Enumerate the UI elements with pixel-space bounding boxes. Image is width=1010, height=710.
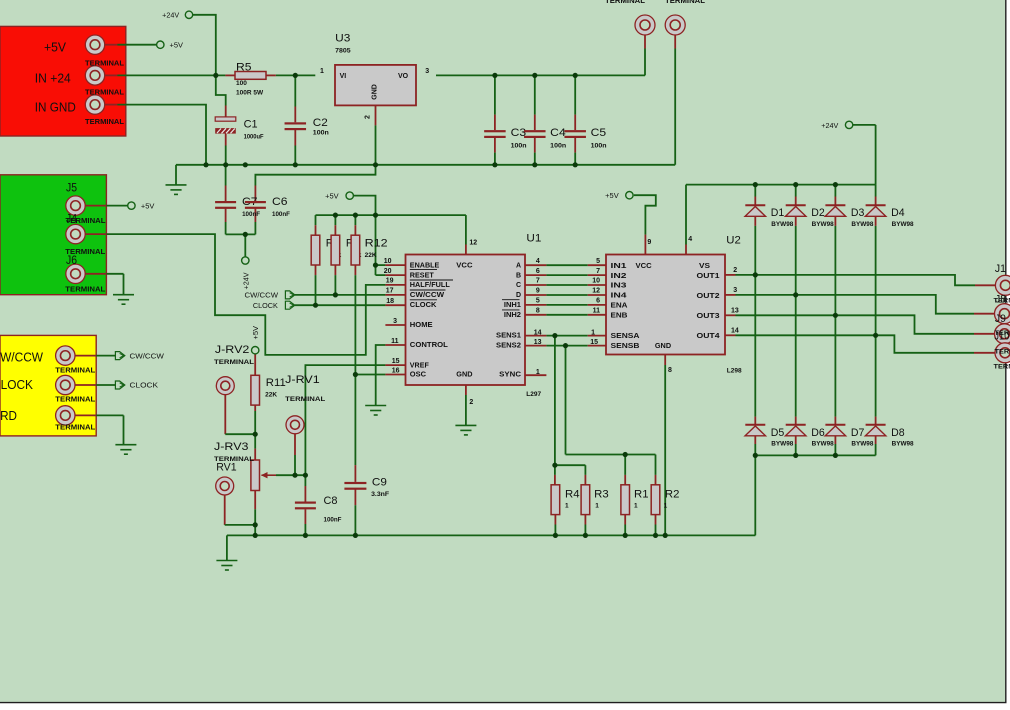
power flag +5V U2 — [626, 192, 633, 199]
terminal pad J-RV1 — [286, 416, 304, 434]
capacitor C9 — [344, 482, 366, 490]
resistor R1 — [621, 485, 630, 515]
svg-text:OUT1: OUT1 — [697, 273, 720, 280]
svg-text:22K: 22K — [365, 252, 377, 259]
svg-text:TERMINAL: TERMINAL — [55, 397, 96, 404]
resistor R12 — [351, 235, 360, 265]
junction at (554.9,335.6) — [552, 333, 557, 338]
junction at (575.2,75.4) — [573, 73, 578, 78]
svg-text:9: 9 — [536, 288, 540, 295]
svg-text:BYW98: BYW98 — [771, 222, 794, 228]
ground symbol bottom-left — [216, 561, 237, 571]
svg-text:J9: J9 — [995, 313, 1006, 325]
wire green block middle pad to HALF/FULL pin 19 — [85, 233, 107, 235]
junction at (355.4,535.4) — [353, 533, 358, 538]
wire U1 A to U2 IN1 — [525, 264, 546, 266]
wire C6 feed from ground rail — [255, 165, 375, 186]
power flag +5V red block — [157, 41, 164, 48]
svg-text:GND: GND — [372, 84, 379, 100]
svg-text:INH2: INH2 — [504, 312, 521, 319]
junction at (755.3,184.6) — [753, 182, 758, 187]
terminal pad IN GND — [85, 95, 104, 114]
svg-text:TERMINAL: TERMINAL — [995, 348, 1010, 355]
junction at (565.5,345.6) — [563, 343, 568, 348]
junction at (494.9,75.4) — [492, 73, 497, 78]
wire IN+24 pad to R5 — [105, 74, 118, 76]
svg-text:D7: D7 — [851, 427, 865, 439]
svg-text:U3: U3 — [335, 33, 350, 45]
svg-text:BYW98: BYW98 — [812, 222, 835, 228]
svg-text:C9: C9 — [372, 477, 387, 489]
wire +24V top rail — [686, 184, 876, 186]
svg-text:CW/CCW: CW/CCW — [130, 353, 165, 360]
svg-text:J4: J4 — [66, 212, 77, 226]
ground symbol below yellow block — [115, 445, 136, 455]
wire U1 GND pin 2 — [465, 385, 467, 395]
junction at (575.2,164.8) — [573, 162, 578, 167]
wire +5V flag to R11 top — [254, 354, 256, 375]
terminal pad top 1 — [635, 15, 655, 35]
junction at (625.2,535.4) — [623, 533, 628, 538]
wire +24V flag to node R5-left — [193, 15, 216, 76]
wire J-RV1 pad drop — [294, 434, 296, 456]
power flag +5V green block — [128, 202, 135, 209]
svg-text:OUT2: OUT2 — [697, 293, 720, 300]
svg-text:20: 20 — [384, 268, 392, 275]
junction at (255.2,524.9) — [253, 522, 258, 527]
input port arrow CW/CCW — [285, 291, 294, 299]
svg-text:10: 10 — [592, 278, 600, 285]
svg-text:+24V: +24V — [162, 13, 179, 20]
svg-text:OSC: OSC — [410, 372, 426, 379]
svg-text:16: 16 — [392, 367, 400, 374]
driver U2 L298 — [606, 255, 725, 355]
wire J-RV3 pad to RV1 bottom node — [224, 495, 226, 525]
svg-text:J1: J1 — [995, 263, 1006, 275]
junction at (835.4,184.6) — [833, 182, 838, 187]
svg-text:TERMINAL: TERMINAL — [85, 119, 125, 126]
svg-text:C4: C4 — [550, 127, 566, 139]
svg-text:INH1: INH1 — [504, 302, 521, 309]
wire U1 SYNC stub pin 1 — [525, 374, 546, 376]
svg-text:IN3: IN3 — [611, 283, 627, 290]
svg-text:TERMINAL: TERMINAL — [214, 359, 254, 366]
wire ground rail y=165 — [176, 164, 675, 166]
diode D7 BYW98 — [825, 425, 845, 436]
wire U1 C to U2 IN3 — [525, 284, 546, 286]
svg-text:SENS1: SENS1 — [496, 333, 521, 340]
junction at (665.2,535.4) — [663, 533, 668, 538]
wire U1 D to U2 IN4 — [525, 294, 546, 296]
svg-text:D2: D2 — [811, 207, 825, 219]
output port arrow CLOCK — [115, 381, 124, 389]
wire U1 INH1 to U2 ENA — [525, 304, 546, 306]
wire U1 SENS1 to U2 SENSA — [525, 335, 546, 337]
wire U2 OUT2 to terminal J1-2 — [725, 294, 736, 296]
wire U3 VO +5V line to terminal corner — [436, 74, 645, 76]
svg-text:C2: C2 — [313, 117, 328, 129]
power flag +24V below C7/C6 (rotated) — [242, 257, 249, 264]
ground symbol CONTROL — [365, 406, 386, 416]
wire anode rail down to ground rail — [754, 455, 756, 535]
svg-text:BYW98: BYW98 — [892, 222, 915, 228]
svg-text:100n: 100n — [313, 130, 329, 137]
svg-text:IN +24: IN +24 — [35, 71, 71, 85]
wire U2 GND pin 8 to ground rail — [664, 355, 666, 366]
svg-text:J-RV1: J-RV1 — [285, 374, 320, 386]
wire CW/CCW input net to pin 17 — [295, 294, 386, 296]
junction at (255.2,535.4) — [253, 533, 258, 538]
terminal pad J-RV2 — [216, 377, 234, 395]
svg-text:ENA: ENA — [611, 303, 628, 310]
svg-text:14: 14 — [534, 330, 542, 337]
junction at (655.5,535.4) — [653, 533, 658, 538]
junction at (534.8,75.4) — [532, 73, 537, 78]
svg-text:BYW98: BYW98 — [892, 442, 915, 448]
wire U2 OUT3 to terminal J1-3 — [725, 314, 736, 316]
svg-text:D3: D3 — [851, 207, 865, 219]
svg-text:100nF: 100nF — [272, 211, 290, 218]
svg-text:HOME: HOME — [410, 322, 433, 329]
wire R12 pins — [354, 215, 356, 225]
svg-text:19: 19 — [386, 278, 394, 285]
svg-text:3: 3 — [425, 68, 429, 75]
ground symbol near U3 rail — [166, 185, 187, 195]
wire yellow pad CW/CCW to output arrow — [74, 355, 96, 357]
svg-text:C5: C5 — [591, 127, 607, 139]
svg-text:1: 1 — [536, 369, 540, 376]
wire U1 B to U2 IN2 — [525, 274, 546, 276]
capacitor C4 — [524, 130, 546, 138]
svg-text:TERMINAL: TERMINAL — [995, 330, 1010, 337]
wire pull-up rail y=215 — [316, 214, 466, 216]
wire C3 pins — [494, 75, 496, 114]
svg-text:8: 8 — [668, 367, 672, 374]
svg-text:10: 10 — [384, 258, 392, 265]
svg-text:5: 5 — [596, 258, 600, 265]
svg-text:+5V: +5V — [44, 41, 67, 55]
svg-text:4: 4 — [536, 258, 540, 265]
svg-text:A: A — [516, 262, 521, 269]
wire U3 GND pin 2 — [375, 105, 377, 125]
input port arrow CLOCK — [285, 301, 294, 309]
svg-text:100R 5W: 100R 5W — [236, 90, 264, 97]
svg-text:L298: L298 — [727, 367, 742, 374]
svg-text:RESET: RESET — [410, 272, 435, 279]
wire C1 jog from node — [216, 75, 226, 105]
svg-text:VREF: VREF — [410, 362, 430, 369]
capacitor C5 — [564, 130, 586, 138]
svg-text:2: 2 — [365, 115, 372, 119]
svg-text:+5V: +5V — [170, 43, 184, 50]
capacitor C1 (electrolytic) — [215, 117, 236, 134]
svg-text:CW/CCW: CW/CCW — [0, 351, 43, 365]
svg-text:100nF: 100nF — [324, 517, 342, 524]
terminal pad J4 — [66, 224, 85, 243]
capacitor C8 — [295, 502, 316, 510]
svg-text:VS: VS — [699, 263, 710, 270]
junction at (755.3,455.4) — [753, 453, 758, 458]
svg-text:CLOCK: CLOCK — [410, 302, 437, 309]
connector block J2 (red, +5V / IN +24 / IN GND) — [0, 26, 126, 136]
svg-text:11: 11 — [391, 338, 399, 345]
svg-text:HALF/FULL: HALF/FULL — [410, 282, 451, 289]
svg-text:J8: J8 — [995, 294, 1006, 306]
svg-text:U1: U1 — [526, 233, 541, 245]
svg-text:1: 1 — [595, 503, 599, 510]
wire J-RV2 pad to R11 bottom node — [224, 394, 226, 434]
connector block (yellow, CW/CCW / CLOCK / GRD) — [0, 335, 96, 436]
resistor R11 — [251, 375, 260, 405]
svg-text:U2: U2 — [726, 235, 741, 247]
svg-text:BYW98: BYW98 — [851, 442, 874, 448]
svg-text:SYNC: SYNC — [499, 372, 521, 379]
stepper controller U1 L297 — [406, 255, 526, 386]
svg-text:15: 15 — [590, 339, 598, 346]
ground symbol U1 GND — [455, 425, 476, 435]
junction at (295,475.2) — [292, 473, 297, 478]
capacitor C2 — [285, 122, 307, 130]
potentiometer RV1 — [251, 460, 260, 491]
svg-text:2: 2 — [469, 399, 473, 406]
svg-text:TERMINAL: TERMINAL — [85, 60, 125, 67]
junction at (335.4,294.9) — [333, 292, 338, 297]
svg-text:C1: C1 — [244, 119, 258, 131]
svg-text:TERMINAL: TERMINAL — [65, 286, 106, 293]
junction at (795.7,455.4) — [793, 453, 798, 458]
svg-text:7: 7 — [596, 268, 600, 275]
wire C4 pins — [534, 75, 536, 114]
svg-text:J-RV2: J-RV2 — [215, 344, 250, 356]
svg-text:D: D — [516, 292, 521, 299]
svg-text:3.3nF: 3.3nF — [371, 491, 389, 498]
wire VREF pin 15 to RV1 wiper and C8 — [305, 365, 385, 486]
svg-text:100: 100 — [236, 80, 247, 87]
junction at (215.8,75.4) — [213, 73, 218, 78]
terminal pad GRD (yellow) — [56, 406, 75, 425]
power flag +24V right — [845, 121, 852, 128]
junction at (585.4,535.4) — [583, 533, 588, 538]
svg-text:12: 12 — [592, 288, 600, 295]
wire R7 pins — [334, 215, 336, 225]
svg-text:1: 1 — [664, 503, 668, 510]
svg-text:22K: 22K — [265, 391, 277, 398]
junction at (225.7,164.8) — [223, 162, 228, 167]
svg-text:D5: D5 — [771, 427, 785, 439]
svg-text:1: 1 — [565, 503, 569, 510]
wire ground rail stem to ground symbol — [175, 165, 177, 185]
diode D6 BYW98 — [786, 425, 806, 436]
wire R4 bottom — [554, 515, 556, 525]
svg-text:GRD: GRD — [0, 409, 17, 423]
svg-text:1: 1 — [591, 330, 595, 337]
svg-text:SENSB: SENSB — [611, 343, 640, 350]
junction at (835.4,315.3) — [833, 313, 838, 318]
svg-text:6: 6 — [596, 298, 600, 305]
terminal pad IN +24 — [85, 66, 104, 85]
svg-text:TERMINAL: TERMINAL — [605, 0, 646, 5]
svg-text:TERMINAL: TERMINAL — [55, 425, 96, 432]
svg-text:CONTROL: CONTROL — [410, 342, 449, 349]
wire R1 bottom — [624, 515, 626, 525]
resistor R3 — [581, 485, 590, 515]
wire +5V flag to U2 VCC pin 9 — [634, 195, 656, 234]
wire ground rail to bottom-left ground symbol — [226, 535, 228, 560]
svg-text:2: 2 — [733, 267, 737, 274]
svg-text:C3: C3 — [511, 127, 526, 139]
junction at (355.4,374.5) — [353, 372, 358, 377]
svg-text:TERMINAL: TERMINAL — [994, 364, 1010, 371]
connector J1 terminal pads — [995, 275, 1010, 295]
junction at (355.4,215.1) — [353, 213, 358, 218]
junction at (875.6,335.3) — [873, 333, 878, 338]
svg-text:CW/CCW: CW/CCW — [245, 293, 279, 300]
terminal pad top 2 — [665, 15, 685, 35]
junction at (555.4,535.4) — [553, 533, 558, 538]
svg-text:VI: VI — [340, 73, 347, 80]
terminal pad J5 — [66, 196, 85, 215]
wire CONTROL pin 11 to ground — [376, 345, 386, 405]
wire U2 OUT1 to terminal J1-1 — [725, 274, 736, 276]
junction at (245.3,234.4) — [243, 232, 248, 237]
resistor R2 (stacked) — [651, 485, 660, 515]
svg-text:R12: R12 — [365, 238, 388, 250]
wire C7/C6 bottoms to +24V flag — [226, 233, 256, 235]
junction at (375.5,265.1) — [373, 263, 378, 268]
svg-text:D6: D6 — [811, 427, 825, 439]
wire diode column D4/D8 — [875, 185, 877, 197]
svg-text:IN4: IN4 — [611, 293, 627, 300]
svg-text:CLOCK: CLOCK — [130, 383, 159, 390]
svg-text:IN2: IN2 — [611, 273, 627, 280]
power flag +5V above R11 (rotated) — [252, 347, 259, 354]
junction at (494.9,164.8) — [492, 162, 497, 167]
svg-text:J-RV3: J-RV3 — [214, 441, 249, 453]
diode D1 BYW98 — [745, 205, 765, 216]
svg-text:13: 13 — [731, 307, 739, 314]
wire U2 OUT4 to terminal J1-4 — [725, 334, 736, 336]
svg-text:3: 3 — [393, 318, 397, 325]
terminal pad J6 — [66, 264, 85, 283]
power flag +5V U1 — [346, 192, 353, 199]
svg-text:7805: 7805 — [335, 47, 351, 54]
svg-text:L297: L297 — [526, 391, 541, 398]
svg-text:TERMINAL: TERMINAL — [285, 396, 325, 403]
svg-text:J5: J5 — [66, 180, 77, 194]
svg-text:TERMINAL: TERMINAL — [665, 0, 706, 5]
resistor R5 — [225, 72, 275, 80]
svg-text:+24V: +24V — [243, 272, 250, 289]
wire RV1 wiper — [276, 474, 305, 476]
svg-text:R2: R2 — [665, 488, 680, 500]
wire yellow pad CLOCK to output arrow — [74, 384, 96, 386]
svg-text:17: 17 — [386, 288, 394, 295]
svg-text:IN GND: IN GND — [35, 100, 76, 114]
svg-text:12: 12 — [469, 240, 477, 247]
svg-text:3: 3 — [733, 287, 737, 294]
svg-text:5: 5 — [536, 298, 540, 305]
terminal pad +5V (red block) — [85, 35, 104, 54]
wire pin stubs U1 left — [385, 264, 405, 266]
resistor R6 — [311, 235, 320, 265]
junction at (755.3,274.9) — [753, 272, 758, 277]
junction at (835.4,455.4) — [833, 453, 838, 458]
capacitor C7 — [215, 201, 236, 209]
wire C1 pins — [225, 106, 227, 118]
wire yellow pad GRD to ground — [74, 414, 96, 416]
svg-text:C6: C6 — [272, 196, 288, 208]
junction at (375.5,164.8) — [373, 162, 378, 167]
svg-text:6: 6 — [536, 268, 540, 275]
wire U1 HOME stub pin 3 — [385, 324, 405, 326]
terminal pad CW/CCW (yellow) — [56, 346, 75, 365]
svg-text:BYW98: BYW98 — [812, 442, 835, 448]
svg-text:SENSA: SENSA — [611, 333, 640, 340]
svg-text:OUT3: OUT3 — [697, 313, 720, 320]
svg-text:BYW98: BYW98 — [851, 222, 874, 228]
junction at (795.7,294.9) — [793, 292, 798, 297]
wire C5 pins — [574, 75, 576, 114]
svg-text:C8: C8 — [324, 495, 338, 507]
diode D4 BYW98 — [865, 205, 885, 216]
svg-text:1000uF: 1000uF — [244, 134, 264, 141]
wire diode column D2/D6 — [795, 185, 797, 197]
svg-text:GND: GND — [456, 372, 472, 379]
voltage regulator U3 7805 — [335, 65, 416, 106]
svg-text:D1: D1 — [771, 207, 785, 219]
junction at (245.3,164.8) — [243, 162, 248, 167]
svg-text:OUT4: OUT4 — [697, 333, 720, 340]
svg-text:11: 11 — [593, 308, 601, 315]
junction at (315.5,305.2) — [313, 303, 318, 308]
wire RV1 bottom to ground rail — [254, 491, 256, 510]
junction at (255.2,434.2) — [253, 432, 258, 437]
wire R2 bottom — [655, 515, 657, 525]
svg-text:CLOCK: CLOCK — [253, 303, 278, 310]
junction at (375.5,215.1) — [373, 213, 378, 218]
svg-text:+5V: +5V — [325, 194, 339, 201]
wire +5V pad of red block to +5V flag — [105, 44, 118, 46]
svg-text:4: 4 — [688, 236, 692, 243]
junction at (534.8,164.8) — [532, 162, 537, 167]
capacitor C3 — [484, 130, 506, 138]
wire R12 bottom to OSC and C9 — [354, 275, 356, 465]
junction at (305.4,535.4) — [303, 533, 308, 538]
svg-text:1: 1 — [320, 68, 324, 75]
svg-text:RV1: RV1 — [216, 462, 236, 474]
output port arrow CW/CCW — [115, 352, 124, 360]
wire IN GND pad to ground rail — [105, 104, 118, 106]
svg-text:GND: GND — [655, 343, 671, 350]
power flag +24V top-left — [185, 11, 192, 18]
svg-text:TERMINAL: TERMINAL — [55, 368, 96, 375]
diode D2 BYW98 — [786, 205, 806, 216]
svg-text:7: 7 — [536, 278, 540, 285]
resistor R7 — [331, 235, 340, 265]
wire +5V flag to U1 pull-up rail — [353, 196, 375, 216]
svg-text:TERMINAL: TERMINAL — [85, 89, 125, 96]
svg-text:+5V: +5V — [141, 204, 155, 211]
svg-text:1: 1 — [634, 503, 638, 510]
wire R5 to U3 VI node — [276, 74, 316, 76]
svg-text:100n: 100n — [591, 142, 607, 149]
svg-text:9: 9 — [647, 239, 651, 246]
svg-text:+5V: +5V — [253, 326, 260, 340]
junction at (295.3,75.4) — [293, 73, 298, 78]
svg-text:CLOCK: CLOCK — [0, 378, 34, 392]
wire CLOCK input net to pin 18 — [295, 304, 386, 306]
svg-text:R11: R11 — [266, 377, 286, 389]
